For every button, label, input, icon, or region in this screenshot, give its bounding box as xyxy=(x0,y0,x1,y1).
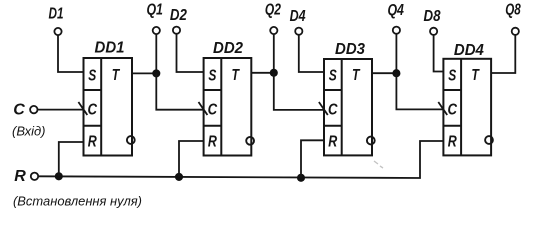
junction R bus to DD3 xyxy=(297,174,305,182)
wire Q1 to DD2 C input xyxy=(156,73,203,109)
junction R bus to DD2 xyxy=(175,173,183,181)
wire R bus xyxy=(38,141,443,178)
terminal R xyxy=(31,173,38,180)
wire DD3 T output xyxy=(372,72,396,74)
wire DD2 T output xyxy=(251,72,273,74)
svg-text:R: R xyxy=(448,134,457,151)
wire Q4 to DD4 C input xyxy=(396,73,443,109)
inverted output circle DD4 xyxy=(485,136,493,144)
wire R riser DD2 xyxy=(179,141,204,177)
terminal D1 xyxy=(54,28,61,35)
svg-text:R: R xyxy=(88,134,97,151)
svg-text:D2: D2 xyxy=(170,7,187,24)
inverted output circle DD2 xyxy=(246,137,254,145)
terminal D2 xyxy=(173,27,180,34)
faint scan artifact xyxy=(374,161,383,168)
wire R riser DD3 xyxy=(301,140,324,178)
svg-text:Q2: Q2 xyxy=(265,2,281,19)
wire Q2 riser xyxy=(273,34,275,73)
wire Q4 riser xyxy=(395,34,397,73)
wire D1 to DD1 S input xyxy=(58,35,84,72)
svg-text:D4: D4 xyxy=(290,8,306,25)
svg-text:C: C xyxy=(208,102,218,119)
wire R riser DD1 xyxy=(59,142,84,176)
svg-text:(Встановлення нуля): (Встановлення нуля) xyxy=(13,194,142,209)
dynamic input mark DD2 C xyxy=(199,102,208,115)
junction node Q1 xyxy=(152,69,160,77)
wire DD1 T output xyxy=(132,72,156,74)
svg-text:R: R xyxy=(14,168,26,185)
svg-text:D8: D8 xyxy=(424,8,441,25)
svg-text:Q4: Q4 xyxy=(387,2,404,19)
svg-text:T: T xyxy=(112,67,120,84)
svg-text:S: S xyxy=(208,68,216,85)
svg-text:DD2: DD2 xyxy=(213,40,243,57)
flip-flop DD1 box xyxy=(84,58,133,156)
terminal C xyxy=(30,106,37,113)
svg-text:Q8: Q8 xyxy=(505,2,521,19)
terminal D8 xyxy=(430,28,437,35)
terminal D4 xyxy=(295,28,302,35)
inverted output circle DD3 xyxy=(367,137,375,145)
junction R bus to DD1 xyxy=(55,172,63,180)
wire Q1 riser xyxy=(155,34,157,73)
wire D2 to DD2 S input xyxy=(177,34,204,72)
flip-flop DD2 box xyxy=(204,58,252,156)
terminal Q4 xyxy=(393,27,400,34)
svg-text:S: S xyxy=(329,68,337,85)
svg-text:T: T xyxy=(471,67,479,84)
flip-flop DD3 box xyxy=(324,59,372,155)
wire Q2 to DD3 C input xyxy=(274,73,324,110)
wire C to DD1 C input xyxy=(38,109,84,111)
flip-flop DD4 box xyxy=(443,59,491,156)
dynamic input mark DD3 C xyxy=(319,102,328,115)
svg-text:Q1: Q1 xyxy=(146,2,163,19)
terminal Q8 xyxy=(512,28,519,35)
svg-text:D1: D1 xyxy=(49,6,64,23)
svg-text:T: T xyxy=(352,67,360,84)
terminal Q2 xyxy=(270,27,277,34)
junction node Q2 xyxy=(270,69,278,77)
wire D4 to DD3 S input xyxy=(299,35,324,72)
wire DD4 T output to Q8 xyxy=(491,35,515,73)
dynamic input mark DD4 C xyxy=(438,102,447,115)
svg-text:R: R xyxy=(328,134,337,151)
svg-text:R: R xyxy=(208,134,217,151)
junction node Q4 xyxy=(392,69,400,77)
svg-text:S: S xyxy=(448,68,456,85)
svg-text:S: S xyxy=(88,68,96,85)
svg-text:C: C xyxy=(88,102,98,119)
svg-text:(Вхід): (Вхід) xyxy=(12,124,46,139)
svg-text:C: C xyxy=(13,102,25,119)
terminal Q1 xyxy=(153,27,160,34)
svg-text:DD4: DD4 xyxy=(454,42,484,59)
dynamic input mark DD1 C xyxy=(78,102,87,115)
svg-text:DD3: DD3 xyxy=(335,41,365,58)
svg-text:DD1: DD1 xyxy=(95,40,125,57)
svg-text:T: T xyxy=(232,67,240,84)
wire D8 to DD4 S input xyxy=(434,35,444,72)
svg-text:C: C xyxy=(447,102,457,119)
inverted output circle DD1 xyxy=(127,136,135,144)
svg-text:C: C xyxy=(328,102,338,119)
